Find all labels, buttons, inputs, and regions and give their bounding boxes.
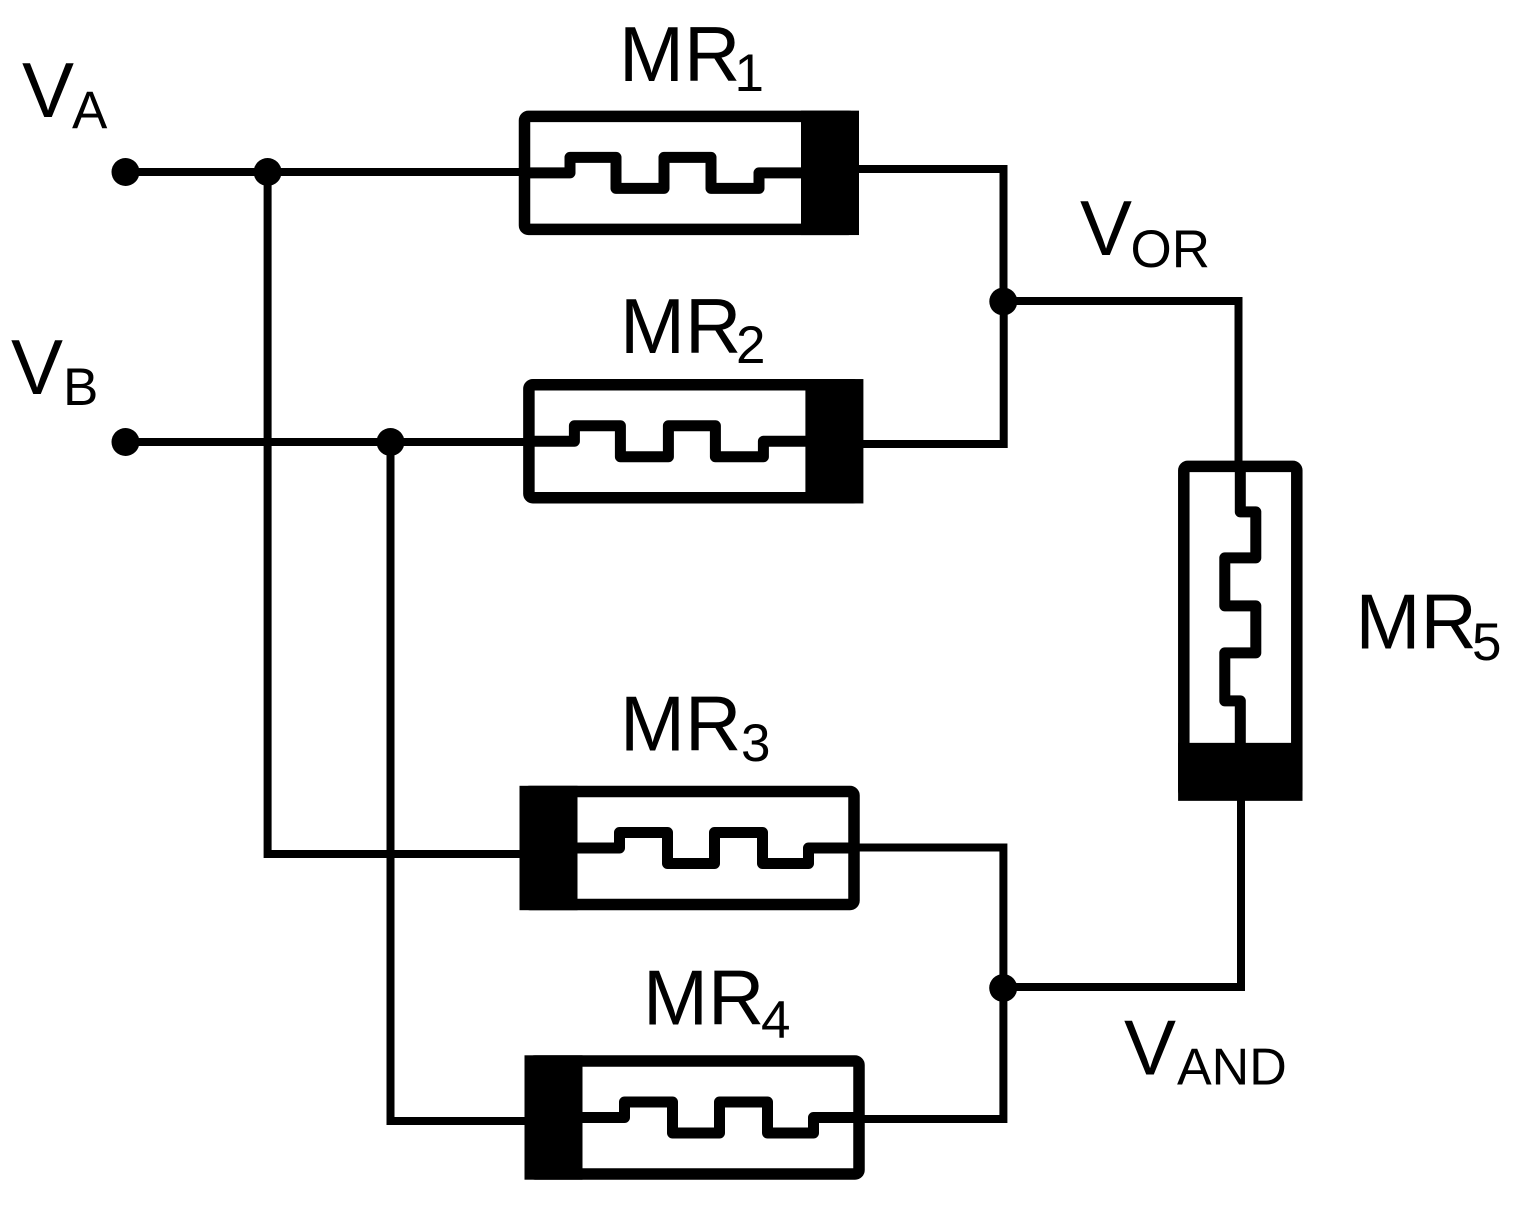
label VA [22,46,108,140]
svg-text:B: B [63,358,98,417]
label VOR [1080,184,1210,279]
label MR1 [619,10,764,103]
memristor MR3 [520,786,855,910]
label VB [11,323,98,417]
memristor MR5 [1178,466,1302,801]
wire VA branch to MR3 [268,172,560,854]
svg-text:V: V [11,323,63,411]
wire MR3 to VAND node [857,848,1003,989]
svg-text:V: V [1080,184,1132,272]
svg-text:5: 5 [1472,613,1501,672]
svg-text:MR: MR [620,680,741,768]
input terminal VA [112,158,140,186]
svg-text:MR: MR [643,954,764,1042]
wire VB to MR2 [125,438,530,446]
svg-text:V: V [1124,1004,1176,1092]
wire MR5 to VAND node [1003,795,1241,987]
svg-text:4: 4 [761,991,790,1050]
wire MR2 to VOR node [861,302,1004,444]
label MR3 [620,680,770,774]
wire VOR node to MR5 [1003,301,1239,468]
svg-text:MR: MR [619,10,740,98]
svg-text:MR: MR [1356,578,1477,666]
label MR5 [1356,578,1502,673]
wire VB branch to MR4 [391,442,563,1121]
memristor MR1 [525,111,860,235]
svg-text:V: V [22,46,74,134]
svg-text:OR: OR [1131,220,1211,279]
svg-text:1: 1 [735,44,764,103]
node VAND [989,974,1017,1002]
memristor MR4 [525,1055,860,1179]
svg-text:2: 2 [736,316,765,375]
label MR4 [643,954,790,1051]
wire MR1 to VOR node [856,169,1004,302]
svg-text:A: A [72,81,108,140]
svg-text:MR: MR [620,282,741,370]
svg-text:3: 3 [741,714,770,773]
memristor MR2 [529,379,864,503]
node VOR [989,288,1017,316]
input terminal VB [112,428,140,456]
wire MR4 to VAND node [862,988,1003,1119]
wire VA to MR1 [125,168,524,176]
label MR2 [620,282,765,375]
svg-text:AND: AND [1177,1039,1287,1097]
label VAND [1124,1004,1287,1097]
junction node on VB line [377,428,405,456]
junction node on VA line [254,158,282,186]
